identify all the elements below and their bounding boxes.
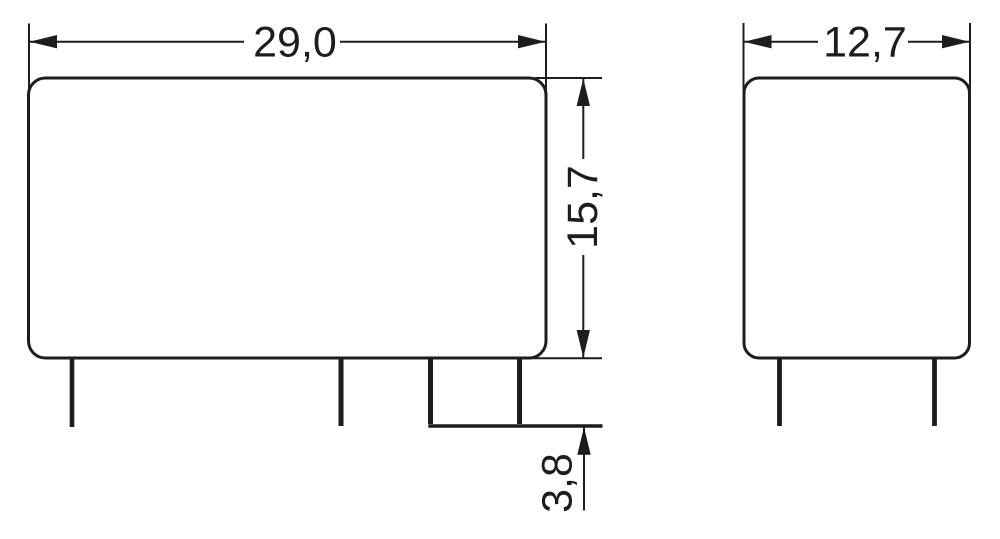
extension line top of dimension 15,7: [535, 77, 602, 79]
dimension line 12,7 left segment: [744, 41, 819, 43]
extension line right of dimension 29,0: [545, 24, 547, 93]
arrowhead right of 12,7: [942, 35, 970, 48]
pin left (side view): [777, 359, 782, 426]
svg-text:15,7: 15,7: [559, 165, 607, 249]
relay body front view: [29, 78, 547, 358]
svg-text:12,7: 12,7: [823, 18, 907, 66]
wide pin (front view right): [431, 359, 520, 424]
arrowhead of 3,8 pointing up to pin bottom line: [577, 427, 590, 455]
extension line left of dimension 12,7: [743, 23, 745, 90]
arrowhead left of 12,7: [744, 35, 772, 48]
dimension line 15,7 lower segment: [582, 255, 584, 358]
pin right (side view): [932, 359, 937, 426]
dimension line 29,0 left segment: [29, 41, 244, 43]
relay body side view: [744, 78, 970, 358]
extension line right of dimension 12,7: [969, 23, 971, 90]
extension line bottom of dimension 15,7: [522, 357, 602, 359]
extension line bottom of dimension 3,8 (pin bottom line extended): [428, 424, 602, 427]
dimension line 15,7 upper segment: [582, 78, 584, 159]
arrowhead top of 15,7: [577, 79, 590, 107]
svg-text:3,8: 3,8: [534, 453, 582, 513]
extension line left of dimension 29,0: [28, 24, 30, 91]
arrowhead bottom of 15,7: [577, 330, 590, 358]
arrowhead left of 29,0: [30, 35, 58, 48]
dimension line 3,8 tail below arrow: [583, 427, 585, 510]
dimension line 29,0 right segment: [340, 41, 546, 43]
svg-text:29,0: 29,0: [253, 18, 337, 66]
pin 2 (front view middle): [339, 359, 344, 426]
arrowhead right of 29,0: [518, 35, 546, 48]
pin 1 (front view left): [70, 359, 75, 427]
dimension line 12,7 right segment: [908, 41, 970, 43]
